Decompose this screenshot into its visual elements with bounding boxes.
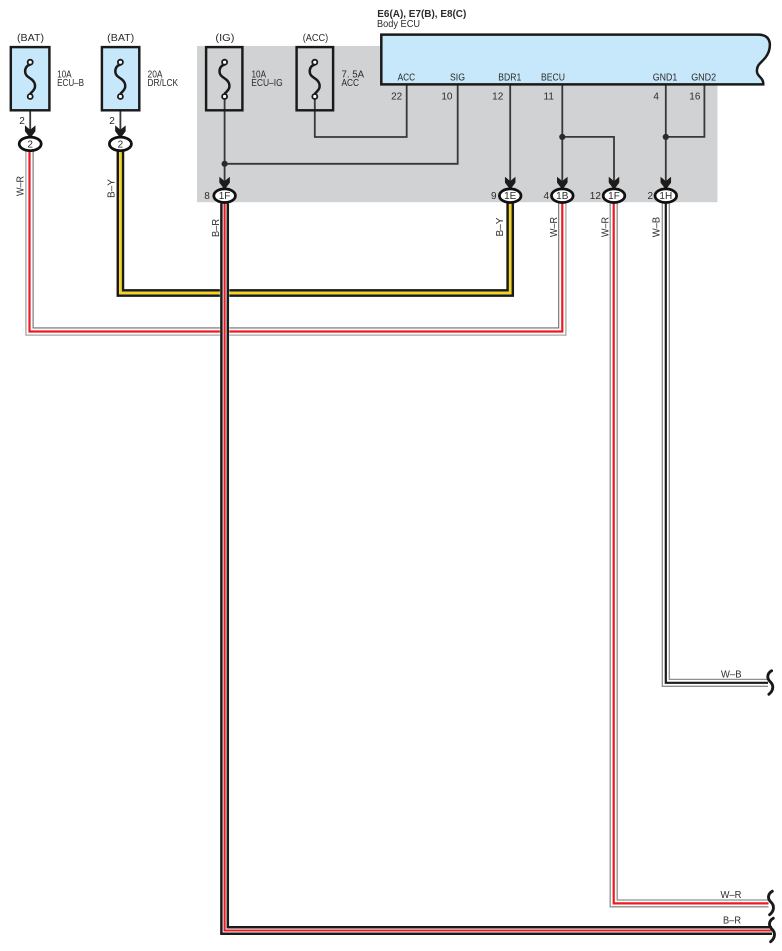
- wire W-B 1H to right: [662, 204, 768, 687]
- svg-text:1F: 1F: [608, 191, 620, 202]
- fuse F1 10A ECU-B: [11, 47, 50, 110]
- connector oval 2 (fuse1): [19, 137, 41, 151]
- arrow into 1B: [557, 177, 568, 190]
- svg-text:B–R: B–R: [211, 219, 222, 237]
- node junction BECU: [559, 134, 565, 140]
- svg-text:11: 11: [544, 91, 555, 102]
- wire B-Y fuse2 to 1E: [118, 151, 513, 296]
- connector 1B pin4: [552, 189, 574, 203]
- wire fuse ECU-B down: [29, 99, 31, 130]
- connector 1F pin12: [603, 189, 625, 203]
- svg-text:8: 8: [204, 191, 210, 202]
- svg-text:DR/LCK: DR/LCK: [148, 78, 179, 89]
- wire BECU pin11 down: [561, 84, 563, 181]
- svg-text:2: 2: [118, 139, 124, 150]
- arrow into 1E: [505, 177, 516, 190]
- svg-text:W–R: W–R: [549, 217, 560, 237]
- arrow into 1H: [661, 177, 672, 190]
- wire B-R 1F(8) to bottom right: [221, 204, 772, 934]
- fuse F3 10A ECU-IG: [206, 47, 242, 110]
- wire W-R fuse1 to 1B: [26, 151, 566, 335]
- svg-text:(BAT): (BAT): [17, 33, 44, 44]
- body ECU box E6/E7/E8: [381, 35, 770, 85]
- arrow into oval 2 (fuse1): [25, 125, 36, 138]
- svg-text:B–Y: B–Y: [495, 217, 506, 236]
- svg-text:16: 16: [689, 91, 701, 102]
- svg-text:ACC: ACC: [342, 78, 360, 89]
- connector 1F pin8: [214, 189, 236, 203]
- svg-text:BDR1: BDR1: [498, 73, 521, 84]
- svg-text:12: 12: [492, 91, 504, 102]
- svg-text:1F: 1F: [219, 191, 231, 202]
- wire BECU branch to 1F: [562, 137, 614, 181]
- svg-text:2: 2: [27, 139, 33, 150]
- wire SIG pin10 to junction: [225, 84, 458, 164]
- fuse F4 7.5A ACC: [297, 47, 334, 110]
- svg-text:GND2: GND2: [691, 73, 716, 84]
- wire IG fuse down: [224, 99, 226, 181]
- svg-text:22: 22: [391, 91, 403, 102]
- svg-text:10: 10: [441, 91, 453, 102]
- node junction IG/SIG: [222, 161, 228, 167]
- node junction GND1/GND2: [663, 134, 669, 140]
- wire BDR1 pin12 down: [509, 84, 511, 181]
- svg-text:2: 2: [19, 116, 25, 127]
- svg-text:2: 2: [109, 116, 115, 127]
- svg-text:1H: 1H: [659, 191, 672, 202]
- continuation squiggle B-R: [769, 918, 774, 942]
- svg-text:BECU: BECU: [541, 73, 565, 84]
- svg-text:W–B: W–B: [652, 216, 663, 237]
- svg-text:1E: 1E: [504, 191, 517, 202]
- arrow into 1F(8): [219, 177, 230, 190]
- wire ACC fuse to pin22: [315, 84, 407, 137]
- svg-text:9: 9: [491, 191, 497, 202]
- connector 1H pin2: [655, 189, 677, 203]
- svg-text:Body ECU: Body ECU: [377, 19, 420, 30]
- wire GND2 pin16 to junction: [666, 84, 705, 137]
- svg-text:(IG): (IG): [215, 33, 234, 44]
- svg-text:ECU–B: ECU–B: [57, 78, 84, 89]
- svg-text:W–R: W–R: [601, 217, 612, 237]
- arrow into 1F(12): [609, 177, 620, 190]
- connector oval 2 (fuse2): [109, 137, 131, 151]
- continuation squiggle W-R: [768, 891, 773, 915]
- wire fuse DR/LCK down: [119, 99, 121, 130]
- svg-text:W–R: W–R: [16, 176, 27, 196]
- svg-text:(ACC): (ACC): [303, 33, 329, 44]
- arrow into oval 2 (fuse2): [115, 125, 126, 138]
- wire GND1 pin4 down: [665, 84, 667, 181]
- svg-text:4: 4: [543, 191, 549, 202]
- continuation squiggle W-B: [768, 671, 773, 695]
- svg-text:1B: 1B: [556, 191, 569, 202]
- fuse F2 20A DR/LCK: [102, 47, 139, 110]
- svg-text:4: 4: [653, 91, 659, 102]
- gray background panel: [197, 46, 718, 202]
- svg-text:B–R: B–R: [723, 916, 741, 927]
- svg-text:GND1: GND1: [653, 73, 678, 84]
- wire W-R 1F to bottom right: [610, 204, 768, 907]
- svg-text:12: 12: [590, 191, 602, 202]
- connector 1E pin9: [499, 189, 521, 203]
- svg-text:W–B: W–B: [721, 670, 742, 681]
- svg-text:ECU–IG: ECU–IG: [251, 78, 283, 89]
- svg-text:W–R: W–R: [721, 890, 742, 901]
- svg-text:ACC: ACC: [398, 73, 416, 84]
- svg-text:(BAT): (BAT): [107, 33, 134, 44]
- svg-text:2: 2: [647, 191, 653, 202]
- svg-text:SIG: SIG: [450, 73, 465, 84]
- svg-text:B–Y: B–Y: [107, 179, 118, 198]
